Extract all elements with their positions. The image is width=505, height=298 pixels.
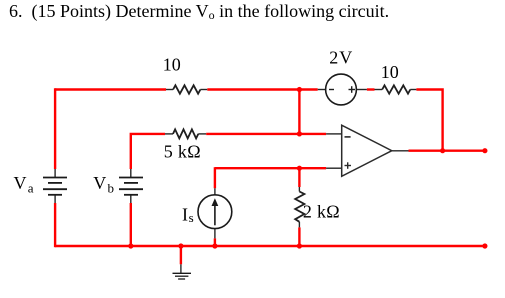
junction dot 2k bottom <box>297 243 302 248</box>
wire from R1 to node A <box>207 88 317 90</box>
op-amp U1 <box>326 125 408 176</box>
svg-text:Vb: Vb <box>93 173 114 195</box>
junction dot output/feedback <box>440 148 445 153</box>
current source Is <box>198 188 232 238</box>
wire bottom rail <box>55 245 485 247</box>
wire Vb top to 5k node <box>131 134 165 169</box>
svg-text:2 kΩ: 2 kΩ <box>303 201 340 221</box>
wire Is top vertical <box>214 167 216 188</box>
voltage source V1 2V <box>318 74 367 105</box>
junction dot inverting node <box>297 131 302 136</box>
svg-text:5 kΩ: 5 kΩ <box>164 142 201 162</box>
wire top-left horizontal (node between Va and R1) <box>55 88 166 90</box>
svg-text:10: 10 <box>163 55 181 75</box>
svg-text:2V: 2V <box>329 47 353 67</box>
wire ground stem <box>180 246 182 264</box>
wire 2k bottom to rail <box>298 227 300 246</box>
junction dot Is bottom <box>212 243 217 248</box>
svg-text:Va: Va <box>14 173 34 195</box>
battery Va <box>43 169 67 203</box>
ground <box>173 264 192 279</box>
wire Is bottom to rail <box>214 238 216 246</box>
resistor R2 10 (top right) <box>375 85 417 93</box>
wire 2V to R2 <box>367 88 375 90</box>
junction dot Vb bottom <box>128 243 133 248</box>
wire noninverting node down to 2k <box>298 167 300 187</box>
wire left vertical lower (Va bottom to bottom rail) <box>54 203 56 247</box>
terminal dot output right end <box>482 148 487 153</box>
wire vertical node A to inverting node <box>298 90 300 134</box>
svg-text:Is: Is <box>182 205 194 225</box>
wire R3 to inverting input <box>206 133 326 135</box>
terminal dot bottom right end <box>482 243 487 248</box>
wire Vb bottom to rail <box>130 203 132 246</box>
wire left vertical upper (Va top to top wire) <box>54 88 56 169</box>
resistor R1 10 (top left) <box>166 85 207 93</box>
title <box>9 1 389 23</box>
junction dot ground <box>178 243 183 248</box>
svg-text:10: 10 <box>381 62 399 82</box>
node A junction dot (top of 299 column) <box>297 87 302 92</box>
battery Vb <box>119 169 143 203</box>
resistor R3 5k <box>165 129 206 138</box>
wire noninverting node horizontal <box>215 167 326 169</box>
resistor R4 2k (vertical) <box>295 187 304 227</box>
wire op-amp output to right terminal <box>409 149 485 151</box>
junction dot noninverting node <box>297 166 302 171</box>
wire R2 to right corner and down to output <box>416 90 442 151</box>
